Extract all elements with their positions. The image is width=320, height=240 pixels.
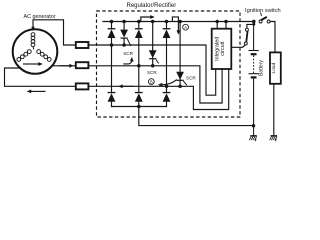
current arrow below phase3 (left) [31, 90, 46, 92]
SCR1 vertical [123, 22, 125, 46]
current arrow on phase3 inside box (left) [123, 85, 135, 87]
svg-text:SCR: SCR [147, 70, 157, 75]
integrated circuit U1 [212, 29, 232, 69]
SCR1 (thyristor, top left) [120, 30, 131, 46]
current arrow on top rail [141, 17, 151, 21]
diode D4 (leg1 bottom) [108, 92, 116, 102]
connector box 3 [76, 83, 89, 89]
ignition switch pole 1 (main rail) [259, 17, 270, 23]
wire bottom rail drop to battery minus line [139, 107, 254, 126]
svg-text:SCR: SCR [186, 76, 196, 81]
svg-text:Ignition switch: Ignition switch [245, 8, 281, 14]
bridge leg2 vertical [138, 22, 140, 107]
diode D5 (leg2 bottom) [135, 92, 143, 102]
svg-text:Regulator/Rectifier: Regulator/Rectifier [127, 3, 177, 9]
wire phase3 (generator left around bottom, into IC pin via nested U) [5, 68, 229, 110]
SCR2 vertical [152, 22, 154, 66]
SCR2 (thyristor, middle) [149, 50, 159, 63]
IC top pins [217, 22, 226, 30]
generator winding top [31, 33, 35, 37]
junction dots top rail [110, 20, 256, 24]
svg-text:Battery: Battery [258, 60, 264, 76]
generator winding left [27, 50, 31, 54]
SCR3 (thyristor, right) [176, 72, 187, 85]
wire top positive rail [103, 21, 254, 23]
SCR1 gate trigger arrow [123, 60, 132, 64]
svg-text:AC generator: AC generator [24, 14, 56, 20]
junction dots phase lines [110, 23, 256, 128]
current arrow hooking down into SCR3 leg [172, 17, 178, 31]
svg-text:SCR: SCR [123, 51, 133, 56]
wire phase2 (generator right to bridge, into IC pin via nested U) [53, 66, 222, 103]
node B (lower rail) [148, 79, 154, 85]
bridge leg1 vertical [111, 22, 113, 107]
generator body [13, 29, 58, 74]
svg-text:Load: Load [271, 62, 277, 73]
svg-text:B: B [150, 79, 153, 84]
current arrow on phase2 [60, 65, 70, 67]
wire rail to load [270, 22, 275, 53]
node A (positive rail) [183, 24, 189, 30]
SCR2 gate trigger arrow (curved, pointing at node B) [162, 80, 177, 85]
regulator/rectifier dashed enclosure [97, 11, 241, 117]
connector box 2 [76, 62, 89, 68]
connector box 1 [76, 42, 89, 48]
diode D6 (leg3 bottom) [163, 92, 171, 102]
bridge leg3 vertical [166, 22, 168, 107]
wire bottom negative rail [112, 106, 167, 108]
wire load to ground [273, 84, 275, 136]
wire phase1 (generator top coil to bridge leg1 area, into IC pin via nested U) [33, 20, 216, 95]
battery [249, 22, 259, 136]
SCR3 vertical [179, 22, 181, 87]
generator leader arrowhead [31, 27, 34, 31]
diode D3 (leg3 top) [163, 28, 171, 38]
svg-text:A: A [184, 25, 187, 30]
diode D2 (leg2 top) [135, 28, 143, 38]
diode D1 (leg1 top) [108, 28, 116, 38]
generator winding right [37, 50, 41, 54]
load [270, 52, 281, 83]
ground (battery side) [249, 135, 256, 141]
ignition switch pole 2 [247, 22, 254, 29]
rotation arrow inside generator [23, 63, 39, 65]
ignition switch leader [261, 13, 262, 17]
IC right pin to ignition switch pole [232, 45, 245, 47]
ground (load side) [270, 135, 278, 141]
svg-text:circuit: circuit [220, 41, 226, 56]
